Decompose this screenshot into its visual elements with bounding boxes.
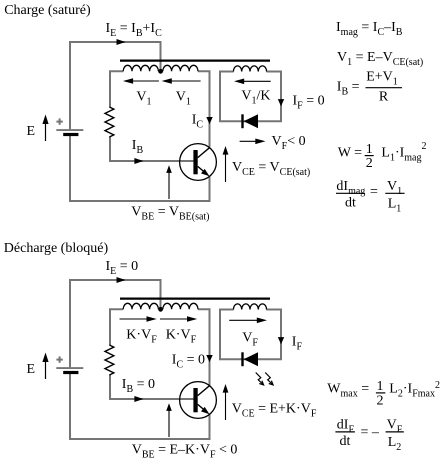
svg-text:= –: = –	[361, 425, 380, 440]
svg-text:E: E	[27, 362, 36, 377]
svg-text:E: E	[27, 124, 36, 139]
svg-text:IC = 0: IC = 0	[172, 353, 205, 371]
svg-text:1: 1	[377, 379, 384, 394]
svg-text:dt: dt	[340, 434, 351, 449]
svg-text:Wmax =: Wmax =	[327, 382, 369, 400]
svg-text:V1: V1	[136, 90, 151, 108]
svg-text:Charge (saturé): Charge (saturé)	[4, 3, 91, 18]
svg-text:V1: V1	[176, 90, 191, 108]
svg-text:L2·IFmax2: L2·IFmax2	[389, 380, 440, 400]
svg-text:Imag = IC–IB: Imag = IC–IB	[336, 20, 403, 38]
svg-text:VBE = VBE(sat): VBE = VBE(sat)	[131, 205, 209, 223]
svg-text:IF: IF	[292, 335, 303, 353]
svg-text:2: 2	[377, 393, 384, 408]
svg-text:K·VF: K·VF	[126, 328, 157, 346]
svg-text:IB =: IB =	[337, 79, 360, 97]
svg-text:IB = 0: IB = 0	[122, 377, 155, 395]
svg-text:Décharge (bloqué): Décharge (bloqué)	[4, 241, 109, 256]
svg-text:VCE = E+K·VF: VCE = E+K·VF	[232, 402, 317, 420]
svg-text:1: 1	[366, 142, 373, 157]
svg-text:L1·Imag2: L1·Imag2	[381, 141, 426, 163]
svg-text:R: R	[379, 89, 389, 104]
svg-text:dt: dt	[345, 196, 356, 211]
svg-text:2: 2	[366, 156, 373, 171]
svg-text:V1/K: V1/K	[241, 89, 270, 107]
svg-text:L2: L2	[388, 435, 402, 453]
svg-text:VBE = E–K·VF < 0: VBE = E–K·VF < 0	[132, 443, 238, 461]
svg-text:L1: L1	[388, 197, 402, 215]
svg-text:VF: VF	[387, 418, 403, 436]
svg-text:V1: V1	[387, 179, 402, 197]
svg-text:=: =	[370, 185, 378, 200]
svg-text:IE = 0: IE = 0	[106, 259, 139, 277]
svg-text:IC: IC	[192, 113, 204, 131]
svg-text:K·VF: K·VF	[166, 328, 197, 346]
svg-text:IE = IB+IC: IE = IB+IC	[106, 21, 163, 39]
svg-text:IF = 0: IF = 0	[293, 94, 325, 112]
svg-text:V1 = E–VCE(sat): V1 = E–VCE(sat)	[337, 50, 423, 68]
svg-text:IB: IB	[132, 138, 144, 156]
svg-text:dImag: dImag	[336, 179, 365, 197]
svg-text:E+V1: E+V1	[366, 69, 398, 87]
svg-text:W =: W =	[338, 145, 362, 160]
svg-text:VF: VF	[242, 331, 258, 349]
svg-text:dIF: dIF	[337, 418, 355, 436]
svg-text:VCE = VCE(sat): VCE = VCE(sat)	[232, 160, 310, 178]
svg-text:VF< 0: VF< 0	[272, 134, 306, 152]
